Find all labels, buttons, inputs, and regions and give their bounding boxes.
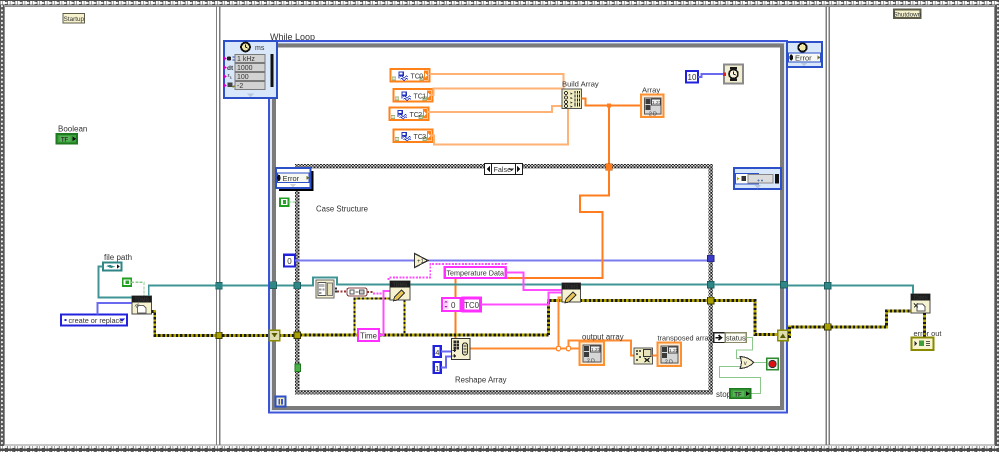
status element box [725, 333, 746, 343]
string constant Temperature Data [445, 267, 506, 278]
wire orange reshape output row [470, 347, 581, 349]
svg-text:Time: Time [360, 331, 377, 340]
wire orange main descent through case [456, 170, 609, 339]
wire teal case to loop border [714, 284, 781, 286]
svg-text:False: False [494, 165, 512, 174]
wire format node out (brown + pink dashes) [367, 291, 374, 293]
wire error TDMS Open out [151, 312, 216, 336]
wire blue iteration across case [295, 260, 708, 262]
junction on orange wire [607, 103, 611, 107]
TDMS Open node [132, 296, 151, 314]
boolean constant F (case selector) [280, 198, 288, 206]
while loop blue outer border [269, 41, 787, 413]
wire error TDMS Close to error out [923, 313, 926, 337]
svg-text:TF: TF [734, 392, 742, 398]
svg-text:1.23: 1.23 [591, 347, 601, 353]
svg-text:Error: Error [795, 54, 812, 63]
wire error across loop to case [279, 334, 295, 337]
function Wait (ms) metronome [724, 65, 743, 84]
wire teal across case (with bump over date node) [300, 278, 708, 286]
svg-text:Startup: Startup [64, 16, 85, 23]
svg-text:2 D: 2 D [665, 360, 673, 366]
svg-text:TDMS: TDMS [564, 285, 579, 291]
wire boolean F to TDMS Open [131, 282, 144, 296]
TDMS Close node [911, 294, 930, 313]
numeric constant 4 [434, 346, 441, 357]
node Get Date/Time [316, 280, 337, 298]
case selector label False [485, 164, 523, 175]
wire error loop to frame border [788, 327, 825, 337]
indicator transposed array [658, 343, 682, 367]
svg-text:transposed array: transposed array [658, 334, 713, 343]
svg-text:Reshape Array: Reshape Array [455, 376, 507, 385]
tunnel teal on frame border [216, 283, 222, 289]
wire TC0 to Build Array [430, 74, 564, 90]
svg-text:2 D: 2 D [649, 112, 657, 118]
svg-text:10: 10 [688, 73, 697, 82]
wire boolean F to selector terminal [289, 201, 296, 203]
timed loop input node (ms config) [224, 41, 277, 98]
tunnel blue on case right border [707, 255, 714, 262]
wire TC1 to Build Array [430, 89, 563, 96]
function Or gate [740, 357, 754, 369]
flat sequence outer border: top filmstrip [0, 0, 999, 6]
node Format Date/Time String [347, 288, 367, 296]
numeric constant 10 [686, 71, 698, 83]
loop iteration terminal i [276, 397, 286, 407]
numeric constant 1 [434, 362, 441, 373]
tunnel teal case left border [294, 282, 300, 288]
TDMS Write 1 node [390, 281, 410, 301]
wire error case to loop border [714, 301, 778, 335]
svg-text:TF: TF [61, 138, 69, 144]
svg-text:1 kHz: 1 kHz [237, 56, 255, 63]
svg-text:4: 4 [435, 348, 439, 357]
wire 1 to reshape [441, 357, 452, 368]
timed loop left data node Error (with shadow) [276, 168, 314, 191]
svg-text:Array: Array [642, 86, 660, 95]
coercion dot red [723, 73, 726, 76]
unbundle by name arrow [714, 333, 726, 343]
indicator Array [641, 95, 664, 118]
svg-text:0: 0 [419, 73, 423, 80]
svg-text:Boolean: Boolean [58, 125, 87, 134]
tunnel teal case right border [707, 282, 714, 289]
wire orange branch up to TDMS Write 2 [559, 298, 563, 349]
svg-text:0: 0 [451, 301, 456, 310]
svg-text:v: v [744, 361, 747, 367]
svg-text:Error: Error [283, 174, 300, 183]
wire Build Array to Array indicator with junction [582, 99, 641, 106]
tunnel error frame 2|3 border [825, 324, 831, 330]
string constant Time [358, 329, 379, 341]
wire TC3 to Build Array [430, 109, 568, 145]
Shutdown frame label [893, 10, 922, 19]
svg-text:status: status [726, 333, 746, 342]
numeric constant 0 (left) [284, 255, 295, 267]
svg-text:TC0: TC0 [464, 301, 479, 310]
frame separator 2|3 [825, 6, 827, 445]
svg-text:TDMS: TDMS [913, 296, 928, 302]
case structure checkered border [295, 164, 713, 395]
thermocouple VI TC1 [394, 89, 433, 102]
wire error main inside case [300, 299, 708, 336]
svg-text:100: 100 [237, 74, 249, 81]
tunnel error loop right border (chevron up) [778, 330, 788, 340]
function Build Array [562, 89, 582, 109]
wire teal frame border to loop [222, 285, 270, 287]
svg-text:1: 1 [422, 93, 426, 100]
Startup frame label [63, 14, 85, 24]
flat sequence outer border: left dotted edge [0, 5, 4, 446]
indicator error out [912, 338, 934, 351]
wire green OR to condition terminal [755, 362, 767, 364]
boolean constant F [123, 279, 131, 287]
svg-text:1.23: 1.23 [669, 348, 679, 354]
svg-text:1000: 1000 [237, 65, 253, 72]
wire orange junction down to case tunnel [608, 106, 610, 165]
thermocouple VI TC2 [390, 108, 429, 121]
while loop gray frame [274, 46, 782, 409]
wire green stop to OR [720, 367, 761, 394]
wire blue enum to TDMS Open [98, 303, 133, 315]
flat sequence outer border: right dotted edge [995, 5, 999, 446]
function Reshape Array [452, 339, 471, 360]
wire teal loop to frame border [788, 285, 826, 287]
svg-text:1: 1 [435, 364, 439, 373]
string constant TC0 [463, 298, 481, 311]
svg-text:-2: -2 [237, 83, 243, 90]
svg-text:TDMS: TDMS [393, 283, 408, 289]
tunnel error case right border [707, 297, 714, 304]
svg-text:ms: ms [255, 45, 265, 52]
svg-text:file path: file path [104, 253, 132, 262]
tunnel teal loop left border [270, 282, 277, 289]
junction dot 2 [566, 346, 570, 350]
thermocouple VI TC3 [394, 130, 433, 143]
function Transpose 2D Array [634, 348, 653, 364]
wire green status to OR [737, 338, 753, 359]
thermocouple VI TC0 [391, 69, 430, 82]
svg-text:1.23: 1.23 [652, 100, 662, 106]
wire datetime to format node (brown dashed) [337, 291, 347, 293]
loop right mid data node [734, 168, 781, 189]
wire orange branch over output array to transpose [569, 340, 637, 355]
svg-text:0: 0 [287, 257, 292, 266]
tunnel teal frame 2|3 border [825, 283, 831, 289]
tunnel teal loop right border [781, 282, 788, 289]
wire TC0 const to TDMS Write 2 [481, 293, 562, 305]
timed loop right data node (Error) [787, 42, 822, 67]
wire error frame border to loop [222, 334, 269, 337]
TDMS Write 2 node [562, 283, 581, 303]
tunnel error on frame border [216, 332, 222, 338]
wire 4 to reshape [441, 351, 452, 353]
svg-text:+1: +1 [417, 259, 425, 265]
junction dot 1 [556, 346, 560, 350]
svg-text:Shutdown: Shutdown [893, 11, 922, 18]
path control file path [103, 263, 122, 271]
svg-text:Build Array: Build Array [562, 80, 599, 89]
tunnel error loop left border (chevron) [269, 330, 279, 340]
frame separator 1|2 [216, 6, 218, 445]
wire teal file path to TDMS Open [99, 267, 133, 298]
svg-text:Case Structure: Case Structure [316, 205, 368, 214]
wire Time to TDMS Write 1 (pink) [379, 291, 390, 335]
wire teal TDMS Open out to frame edge [149, 286, 216, 297]
wire teal to TDMS Close [831, 286, 913, 295]
wire pink zigzag from Temperature Data (upper run) [389, 264, 507, 281]
enum constant create or replace [61, 315, 127, 326]
svg-text:Temperature Data: Temperature Data [446, 268, 504, 277]
svg-text:output array: output array [582, 333, 624, 342]
numeric constant 0 (spinner) [442, 298, 461, 311]
svg-text:2 D: 2 D [587, 359, 595, 365]
boolean control Boolean (TF) [57, 134, 78, 144]
function +1 increment [415, 254, 429, 268]
indicator output array [580, 342, 605, 366]
wire TC2 to Build Array [428, 106, 562, 112]
svg-text:²₁: ²₁ [228, 74, 233, 81]
flat sequence outer border: bottom filmstrip [0, 446, 999, 452]
svg-text:create or replace: create or replace [69, 316, 124, 325]
svg-text:2: 2 [418, 112, 422, 119]
wire transpose to transposed array [653, 354, 659, 356]
svg-text:3: 3 [422, 134, 426, 141]
wire pink Temperature Data to TDMS Write 2 [506, 273, 562, 291]
orange tunnel on case top border [606, 164, 612, 170]
boolean control stop (TF) [730, 389, 751, 399]
tunnel error case left border [294, 332, 300, 339]
wire teal across loop to case [276, 285, 295, 287]
wire error to TDMS Close [831, 311, 911, 327]
svg-text:TDMS: TDMS [134, 298, 149, 304]
svg-text:dt: dt [227, 65, 234, 72]
loop condition terminal (stop sign) [767, 358, 779, 370]
wire 10 to Wait ms [698, 74, 724, 77]
boolean tunnel on case left border [295, 364, 301, 371]
